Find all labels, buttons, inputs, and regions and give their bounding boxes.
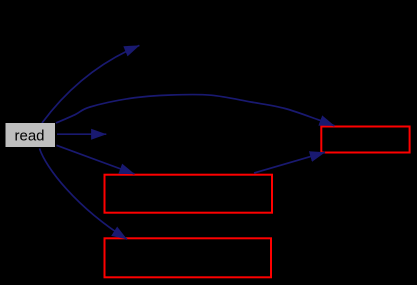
edge read->box top-right (long arc)	[56, 94, 335, 125]
edge read->node1 (top, unlabeled)	[42, 45, 139, 123]
node top-right box (red border)	[321, 127, 409, 153]
edge read->middle box	[57, 145, 135, 174]
edge read->node2 (short horizontal, unlabeled)	[57, 133, 106, 135]
node read (gray filled)	[6, 123, 56, 147]
edge read->bottom box	[40, 149, 128, 240]
svg-text:read: read	[14, 128, 44, 145]
edge middle box->top-right box	[254, 152, 325, 173]
node middle box (red border)	[105, 175, 273, 213]
node bottom box (red border)	[105, 238, 272, 277]
